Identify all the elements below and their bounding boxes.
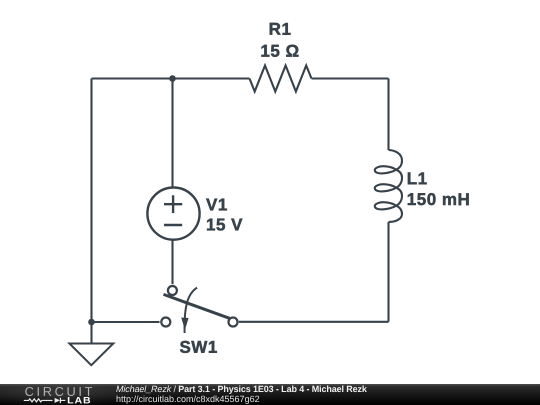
svg-text:R1: R1 [269,20,292,39]
svg-text:15 V: 15 V [206,215,243,234]
V1 plus sign vertical [172,195,174,213]
svg-text:SW1: SW1 [179,338,217,357]
CircuitLab logo [0,384,110,405]
svg-text:LAB: LAB [67,395,92,405]
node junction bottom-left [88,319,95,326]
svg-text:150 mH: 150 mH [407,190,470,209]
wire right upper vertical [387,79,389,151]
V1 plus sign horizontal [164,203,182,205]
footer line 2 [115,395,259,404]
ground [69,344,113,366]
svg-text:L1: L1 [407,169,428,188]
resistor R1 [250,66,312,92]
footer line 1 [115,385,366,394]
switch terminal left [161,318,170,327]
wire bottom-left horizontal [92,321,160,323]
voltage source V1 [147,188,199,240]
svg-text:15 Ω: 15 Ω [260,42,299,61]
switch terminal right [229,318,238,327]
switch arrow arc [185,288,197,333]
switch arrowhead [181,318,188,331]
switch terminal top [168,286,177,295]
V1 minus sign [164,224,182,226]
wire left vertical [90,79,92,323]
node junction top [169,75,176,82]
logo resistor zigzag [24,399,53,402]
switch blade [164,294,230,318]
logo diode triangle [55,398,61,403]
logo diode cathode bar [59,398,61,403]
ground stub wire [90,322,92,344]
logo wire to LAB [60,399,65,401]
wire right lower vertical [387,222,389,322]
svg-text:V1: V1 [206,195,228,214]
wire top-right horizontal [312,77,389,79]
switch SW1 [161,286,237,333]
wire bottom-right horizontal [239,321,389,323]
wire V1 stem bottom [171,240,173,284]
wire top-left horizontal [92,77,250,79]
wire V1 stem top [171,79,173,188]
inductor L1 [375,150,402,222]
footer bar [0,384,540,405]
V1 circle body [147,188,199,240]
